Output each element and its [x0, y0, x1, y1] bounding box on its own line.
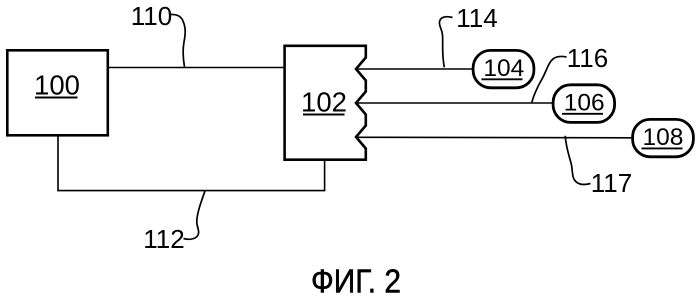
svg-text:ФИГ. 2: ФИГ. 2 — [311, 263, 401, 299]
svg-text:114: 114 — [456, 3, 497, 33]
svg-text:102: 102 — [301, 87, 347, 118]
svg-text:116: 116 — [567, 43, 608, 73]
svg-text:100: 100 — [34, 70, 80, 101]
svg-text:106: 106 — [564, 90, 605, 117]
svg-text:117: 117 — [591, 168, 632, 198]
svg-text:108: 108 — [643, 124, 684, 151]
svg-text:110: 110 — [131, 1, 172, 31]
svg-text:112: 112 — [143, 224, 184, 254]
svg-text:104: 104 — [483, 55, 524, 82]
